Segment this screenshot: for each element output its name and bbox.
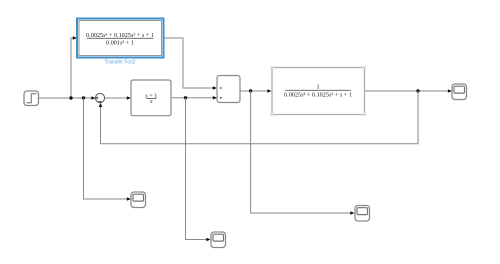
transfer fcn U2 (s+1)/s bbox=[131, 80, 171, 116]
wire step output to sum bbox=[39, 97, 94, 99]
node B junction on step wire (to Scope1) bbox=[82, 96, 85, 99]
arrowhead into sum bbox=[91, 96, 95, 100]
node A junction on step wire (to Transfer Fcn2) bbox=[69, 96, 72, 99]
wire tap down to Scope3 bbox=[251, 91, 351, 213]
wire junction to Transfer Fcn2 input bbox=[71, 38, 74, 98]
node E junction (feedback takeoff) bbox=[416, 89, 419, 92]
wire big transfer fcn output to Scope bbox=[365, 90, 448, 92]
wire sum output to transfer fcn (s+1)/s bbox=[105, 97, 127, 99]
svg-text:0.001s³ + 1: 0.001s³ + 1 bbox=[106, 40, 134, 47]
wire tap down to Scope1 bbox=[84, 98, 128, 199]
scope SC2 bbox=[211, 232, 226, 248]
svg-text:1: 1 bbox=[316, 83, 319, 90]
scope SC1 bbox=[131, 192, 146, 208]
wire (s+1)/s output to product lower input bbox=[171, 97, 213, 99]
transfer fcn U3 1/(0.0025s^3+0.1025s^2+s+1) bbox=[270, 66, 366, 117]
svg-text:0.0025s³ + 0.1025s² + s + 1: 0.0025s³ + 0.1025s² + s + 1 bbox=[86, 32, 154, 39]
svg-text:0.0025s³ + 0.1025s² + s + 1: 0.0025s³ + 0.1025s² + s + 1 bbox=[284, 91, 352, 98]
svg-text:Transfer Fcn2: Transfer Fcn2 bbox=[105, 60, 136, 66]
sum S1 bbox=[95, 93, 104, 102]
product P1 bbox=[217, 76, 242, 103]
node C junction (to Scope2) bbox=[184, 96, 187, 99]
wire Transfer Fcn2 output to product upper input bbox=[165, 38, 214, 88]
transfer fcn U1 (Transfer Fcn2, selected blue) bbox=[77, 19, 164, 58]
step block bbox=[24, 91, 39, 106]
wire product output to big transfer fcn bbox=[240, 90, 267, 92]
node D junction (to Scope3) bbox=[249, 89, 252, 92]
scope SC3 bbox=[355, 206, 370, 222]
scope SC4 bbox=[452, 84, 467, 100]
wire tap down to Scope2 bbox=[186, 98, 207, 240]
wire feedback loop bbox=[101, 91, 419, 144]
